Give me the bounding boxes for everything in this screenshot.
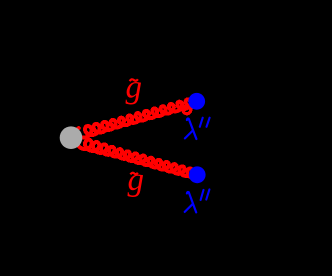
label g-tilde upper xyxy=(126,70,143,106)
svg-text:g: g xyxy=(126,70,143,106)
gluino propagator upper (red gluon coil) xyxy=(76,97,198,137)
gluon end curl under upper vertex xyxy=(183,106,191,114)
svg-text:g: g xyxy=(128,162,145,198)
vertex dot lower (blue) xyxy=(189,166,206,183)
label g-tilde lower xyxy=(128,162,145,198)
label lambda-doubleprime lower (blue) xyxy=(185,189,210,212)
label lambda-doubleprime upper (blue) xyxy=(185,118,210,139)
interaction blob (gray circle) xyxy=(60,126,83,149)
gluino propagator lower (red gluon coil) xyxy=(77,137,200,178)
vertex dot upper (blue) xyxy=(188,93,205,110)
